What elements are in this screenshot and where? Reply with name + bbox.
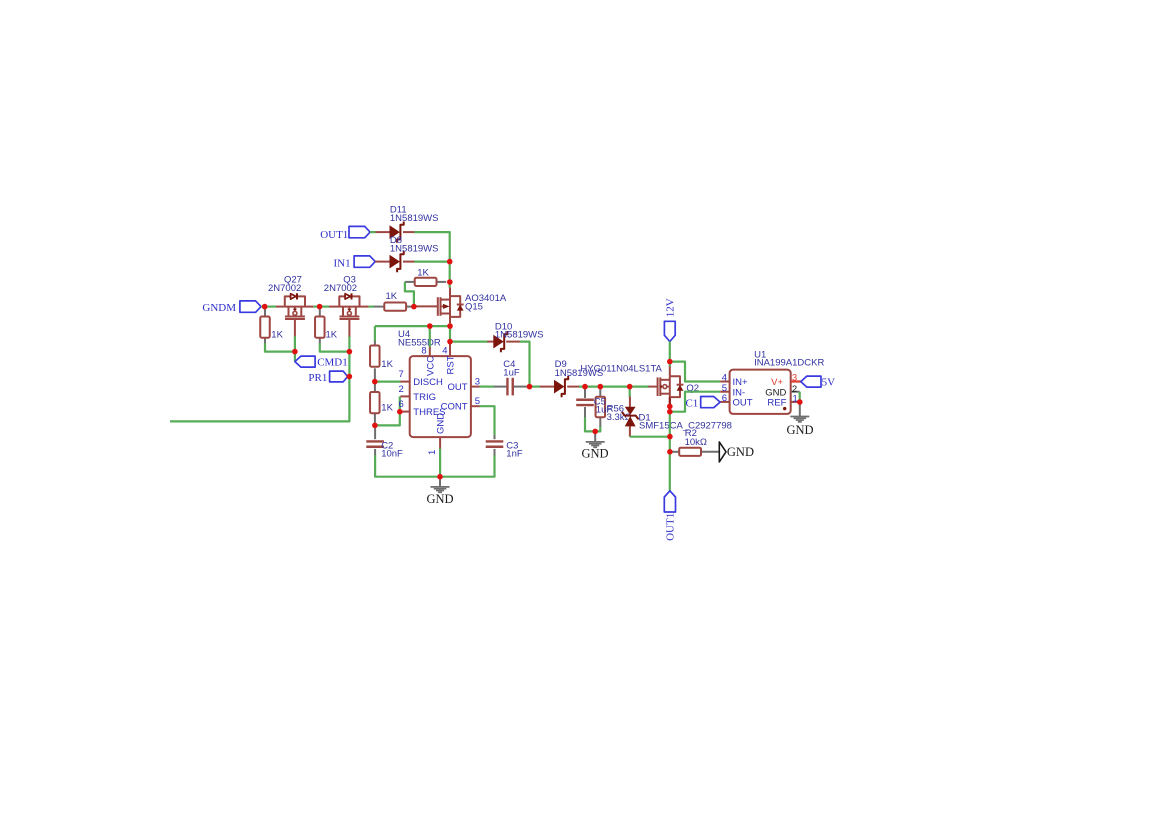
net flag IN1	[333, 256, 375, 270]
wire Q27 gate to CMD1	[294, 336, 296, 361]
svg-text:1K: 1K	[386, 291, 398, 302]
svg-text:IN1: IN1	[333, 258, 350, 270]
node source dot B	[667, 409, 673, 415]
resistor R2 10k	[679, 428, 707, 456]
U4 pin 2 TRIG	[399, 384, 437, 403]
svg-text:GND: GND	[435, 413, 446, 434]
node Q3 gate junction	[347, 349, 353, 355]
wire THRES-TRIG link	[375, 396, 400, 425]
svg-text:1uF: 1uF	[596, 405, 613, 416]
svg-text:8: 8	[421, 345, 426, 356]
resistor R56 3.3k	[596, 397, 632, 423]
transistor Q3 2N7002 leads	[329, 307, 368, 337]
svg-text:6: 6	[722, 393, 727, 404]
U4 pin 5 CONT	[441, 396, 481, 413]
svg-text:CONT: CONT	[441, 402, 468, 413]
svg-text:10kΩ: 10kΩ	[685, 437, 707, 448]
resistor R 1K VCC-DISCH	[370, 346, 394, 371]
diode D9 1N5819WS	[554, 359, 603, 397]
node DISCH junction	[372, 379, 378, 385]
transistor Q15 AO3401A	[438, 293, 507, 317]
resistor R2 leads	[672, 451, 720, 453]
wire D8 cathode to column	[414, 261, 449, 263]
resistor R 1K (DISCH to THRES) leads	[374, 382, 376, 426]
svg-text:12V: 12V	[665, 298, 677, 317]
svg-text:1N5819WS: 1N5819WS	[390, 243, 439, 254]
wire RST node to D10	[452, 341, 488, 343]
resistor R 1K (upper, Q15 gate-source) leads	[405, 281, 446, 283]
wire C4 node to D9	[530, 386, 541, 388]
diode D9 leads	[540, 386, 579, 388]
node D1 tee	[627, 384, 633, 390]
wire Q3 source to 1K	[368, 306, 374, 308]
node TRIG/C2 junction	[372, 423, 378, 429]
node R2 junction	[667, 449, 673, 455]
net flag C1	[685, 397, 720, 410]
capacitor C5 1uF	[576, 400, 594, 405]
wire D11 cathode to right column	[414, 232, 449, 262]
wire Q15 drain to VCC row	[449, 323, 451, 326]
resistor R 1K upper	[415, 268, 437, 286]
node Q15 gate junction	[411, 304, 417, 310]
transistor Q2 leads	[648, 366, 669, 406]
diode D10 1N5819WS	[493, 321, 543, 352]
svg-text:6: 6	[399, 399, 404, 410]
resistor R 1K pull-down of Q3	[315, 317, 338, 341]
node pin8 tee junction	[427, 323, 433, 329]
node 1K upper-right junction	[447, 279, 453, 285]
node GNDM junction	[262, 304, 268, 310]
wire GNDM to Q27 drain	[261, 306, 276, 308]
svg-text:1N5819WS: 1N5819WS	[495, 330, 544, 341]
diode D1 leads	[629, 397, 631, 437]
U4 pin 8 VCC	[421, 345, 436, 376]
wire left column down from VCC row	[374, 326, 376, 341]
wire OUT1 stub	[370, 231, 376, 233]
diode D8 leads	[375, 261, 414, 263]
svg-text:NE555DR: NE555DR	[398, 337, 441, 348]
svg-text:PR1: PR1	[308, 372, 327, 384]
svg-text:5V: 5V	[822, 376, 836, 388]
wire drain sense loop to IN+	[670, 362, 720, 382]
transistor Q27 2N7002	[268, 274, 305, 319]
svg-text:7: 7	[399, 369, 404, 380]
node C4/D10 junction	[527, 384, 533, 390]
svg-text:OUT: OUT	[733, 398, 753, 409]
capacitor C3 leads	[494, 435, 496, 455]
U1 pin 2 GND	[765, 384, 799, 399]
svg-text:1K: 1K	[417, 268, 429, 279]
resistor R 1K pull-down of Q27	[260, 317, 283, 341]
svg-text:1N5819WS: 1N5819WS	[390, 213, 439, 224]
svg-text:1: 1	[793, 393, 798, 404]
svg-text:Q15: Q15	[465, 302, 483, 313]
svg-text:5: 5	[475, 396, 480, 407]
ground stub U1	[799, 402, 801, 416]
svg-text:GNDM: GNDM	[202, 302, 236, 314]
wire C5 bottom to ground node	[585, 417, 600, 431]
svg-text:1K: 1K	[271, 330, 283, 341]
wire upper 1K left to Q15 gate node	[405, 282, 414, 307]
capacitor C3 1nF	[486, 440, 523, 459]
svg-text:OUT: OUT	[447, 382, 467, 393]
U4 pin 7 DISCH	[399, 369, 443, 388]
wire pin1 to rail	[439, 448, 441, 476]
node RST/D10 junction	[447, 339, 453, 345]
diode D10 leads	[487, 341, 520, 343]
capacitor C4 leads	[494, 386, 528, 388]
svg-text:2N7002: 2N7002	[324, 283, 357, 294]
node rail junction	[437, 474, 443, 480]
svg-text:TRIG: TRIG	[413, 392, 436, 403]
wire pin8 up to VCC row	[429, 326, 431, 347]
node Q27-Q3 junction	[317, 304, 323, 310]
U1 pin 1 REF	[767, 393, 800, 408]
node THRES tee junction	[397, 409, 403, 415]
svg-text:2: 2	[399, 384, 404, 395]
node Q15-row junction	[447, 323, 453, 329]
diode D1 SMF15CA TVS	[622, 407, 732, 432]
op-amp U4 NE555DR box	[398, 329, 471, 437]
resistor R 1K (VCC to DISCH) leads	[374, 341, 376, 382]
capacitor C2 leads	[374, 425, 376, 455]
wire Q27 source to Q3 drain	[313, 306, 329, 308]
transistor Q2 HYG011N04LS1TA	[580, 363, 699, 397]
wire D10 cathode down to OUT row	[520, 342, 530, 387]
node REF/GND junction	[797, 399, 803, 405]
svg-text:1: 1	[427, 450, 438, 455]
resistor R 1K (series, Q3 to Q15 gate) leads	[374, 306, 413, 308]
node C5/R56 ground junction	[592, 429, 598, 435]
wire U1 GND to REF	[799, 392, 801, 402]
resistor R 1K (below GNDM node) lead	[264, 308, 266, 344]
capacitor C5 label	[594, 396, 613, 415]
wire Q3 gate down through PR1	[348, 336, 350, 376]
net flag PR1	[308, 371, 347, 384]
node CMD1 junction	[292, 349, 298, 355]
svg-text:1K: 1K	[326, 330, 338, 341]
wire Q2 source column down to OUT1	[669, 406, 671, 490]
svg-text:2N7002: 2N7002	[268, 283, 301, 294]
resistor R 1K series	[384, 291, 406, 311]
ground stub C5	[594, 431, 596, 441]
node D8 junction	[447, 259, 453, 265]
capacitor C2 10nF	[366, 440, 403, 459]
resistor R56 leads	[599, 388, 601, 426]
U4 pin 6 THRES	[399, 399, 446, 418]
wire OUT pin to C4	[480, 386, 495, 388]
net flag GNDM	[202, 301, 261, 314]
diode D8 1N5819WS	[390, 235, 439, 272]
U4 pin 1 GND	[427, 413, 447, 455]
U4 pin 3 OUT	[447, 376, 480, 393]
svg-text:1uF: 1uF	[503, 368, 520, 379]
wire 1K bottom to PR1 node	[320, 343, 350, 351]
op-amp U1 INA199A1DCKR box	[730, 349, 825, 414]
resistor R 1K DISCH-THRES	[370, 392, 394, 413]
svg-text:RST: RST	[446, 355, 457, 374]
svg-text:C1: C1	[685, 397, 698, 409]
svg-text:1K: 1K	[381, 359, 393, 370]
svg-text:3: 3	[475, 376, 480, 387]
svg-text:10nF: 10nF	[381, 449, 403, 460]
wire VCC row	[375, 325, 450, 327]
wire CONT to C3	[480, 406, 495, 435]
wire D9 cathode to Q2 gate	[579, 386, 649, 388]
U1 pin 5 IN-	[720, 383, 745, 399]
U1 pin 6 OUT	[720, 393, 753, 409]
U1 pin-1 marker dot	[783, 407, 786, 410]
svg-text:VCC: VCC	[425, 356, 436, 376]
svg-text:OUT1: OUT1	[665, 513, 677, 541]
U1 pin 4 IN+	[720, 373, 748, 389]
capacitor C4 1uF	[503, 359, 520, 396]
wire DISCH link	[375, 381, 401, 383]
svg-text:3: 3	[792, 373, 797, 384]
svg-text:1K: 1K	[381, 402, 393, 413]
wire RST column	[449, 326, 451, 342]
transistor Q3 2N7002	[324, 274, 360, 319]
net flag CMD1	[295, 356, 348, 369]
ground symbol U1	[786, 417, 813, 438]
net flag OUT1 (bottom)	[664, 491, 676, 541]
svg-text:INA199A1DCKR: INA199A1DCKR	[754, 358, 824, 369]
svg-text:DISCH: DISCH	[413, 377, 443, 388]
wire PR1 long run to left edge	[170, 377, 349, 422]
wire 12V down	[669, 342, 671, 367]
node source dot A	[667, 404, 673, 410]
diode D11 leads	[376, 231, 415, 233]
node C5 tee	[582, 384, 588, 390]
svg-text:CMD1: CMD1	[317, 357, 348, 369]
svg-text:GND: GND	[786, 423, 813, 437]
node PR1 junction	[347, 374, 353, 380]
power flag 5V	[801, 376, 835, 388]
svg-text:GND: GND	[426, 492, 453, 506]
node 12V/drain junction	[667, 359, 673, 365]
svg-text:GND: GND	[727, 445, 754, 459]
U1 pin 3 V+	[771, 373, 801, 389]
svg-text:REF: REF	[767, 398, 786, 409]
capacitor C5 leads	[584, 388, 586, 417]
wire source sense loop to IN-	[670, 392, 720, 412]
diode D11 1N5819WS	[390, 205, 439, 243]
svg-text:OUT1: OUT1	[320, 229, 348, 241]
wire column down to 1K	[449, 262, 451, 288]
transistor Q15 AO3401A leads	[414, 288, 450, 324]
resistor R 1K (below Q27-Q3 node) leads	[319, 308, 321, 344]
svg-text:HYG011N04LS1TA: HYG011N04LS1TA	[580, 363, 662, 374]
ground symbol U4	[426, 487, 453, 506]
power flag 12V	[664, 298, 676, 341]
ground stub U4	[439, 477, 441, 487]
wire D1 bottom to OUT1 column	[630, 436, 670, 438]
ground symbol C5	[581, 442, 608, 461]
node D1 bottom junction	[667, 434, 673, 440]
transistor Q27 2N7002 leads	[276, 307, 313, 337]
wire 1K bottom to CMD1 node	[265, 343, 295, 351]
power flag GND arrow (R2)	[719, 442, 754, 462]
node R56 tee	[598, 384, 604, 390]
net flag OUT1 (top)	[320, 226, 370, 241]
wire D1 top	[629, 387, 631, 397]
svg-text:4: 4	[442, 345, 447, 356]
wire C2 to ground rail	[375, 455, 494, 477]
svg-text:GND: GND	[581, 446, 608, 460]
U4 pin 4 RST	[442, 342, 456, 375]
svg-text:1nF: 1nF	[506, 449, 523, 460]
